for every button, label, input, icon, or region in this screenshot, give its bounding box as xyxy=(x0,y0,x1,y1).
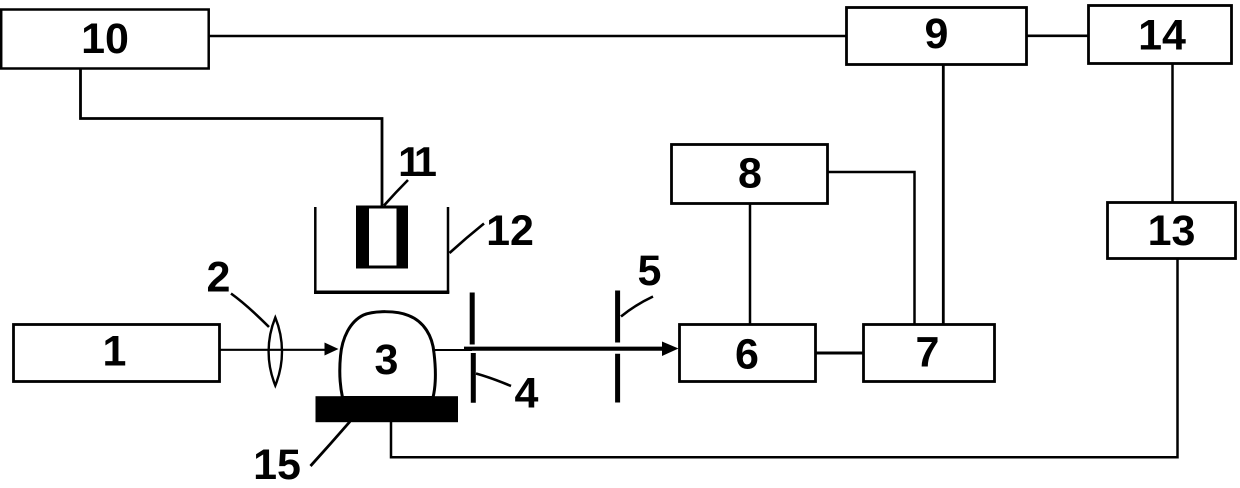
box 6 xyxy=(680,325,816,382)
svg-text:8: 8 xyxy=(738,149,762,197)
container 12 xyxy=(314,207,317,293)
svg-text:9: 9 xyxy=(925,10,949,58)
aperture 5 xyxy=(615,291,620,343)
wire box14 to box13 xyxy=(1171,64,1174,202)
box 9 xyxy=(847,8,1027,65)
svg-text:14: 14 xyxy=(1138,11,1186,59)
svg-text:5: 5 xyxy=(638,247,662,295)
box 10 xyxy=(1,10,209,69)
leader 4 xyxy=(476,374,511,387)
wire box6 to box7 xyxy=(816,352,864,355)
box 14 xyxy=(1089,6,1232,64)
thick beam to detector xyxy=(464,347,666,351)
arrowhead into box6 xyxy=(662,342,679,357)
leader 15 xyxy=(311,422,351,467)
leader 11 xyxy=(384,180,408,206)
svg-text:15: 15 xyxy=(253,441,301,488)
lamp cylinder 11 xyxy=(356,206,408,269)
wire box10 to box9 xyxy=(208,35,847,38)
svg-text:4: 4 xyxy=(515,370,539,418)
svg-text:11: 11 xyxy=(398,138,436,185)
wire box8 to box7 xyxy=(827,172,915,324)
box 8 xyxy=(672,145,828,204)
svg-text:1: 1 xyxy=(103,327,127,375)
lens 2 xyxy=(269,318,282,386)
arrowhead at sample xyxy=(325,343,339,356)
svg-text:3: 3 xyxy=(375,336,399,384)
svg-text:12: 12 xyxy=(486,207,534,255)
svg-text:7: 7 xyxy=(916,329,940,377)
wire box9 to box14 xyxy=(1026,34,1089,37)
droplet 3 xyxy=(340,312,436,398)
beam thin segment after dome xyxy=(434,349,472,351)
wire box9 to box7 xyxy=(942,64,945,324)
aperture 4 xyxy=(470,293,475,345)
leader 2 xyxy=(231,294,269,328)
svg-text:6: 6 xyxy=(735,331,759,379)
leader 12 xyxy=(450,224,485,254)
svg-text:13: 13 xyxy=(1148,207,1196,255)
box 13 xyxy=(1108,203,1236,259)
wire box10 to lamp11 xyxy=(81,69,383,207)
beam box1 to lens to sample xyxy=(220,349,330,351)
box 1 xyxy=(14,325,220,382)
wire box8 to box6 xyxy=(749,203,752,324)
substrate bar 15 xyxy=(316,396,459,422)
leader 5 xyxy=(621,297,653,317)
wire bar15 to box13 (bottom run) xyxy=(391,259,1178,457)
svg-text:10: 10 xyxy=(81,15,129,63)
box 7 xyxy=(864,325,995,382)
svg-text:2: 2 xyxy=(207,254,231,302)
